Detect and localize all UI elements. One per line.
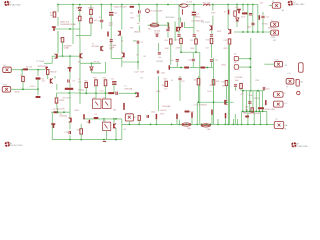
svg-text:100R: 100R: [190, 48, 195, 50]
svg-text:GND: GND: [156, 91, 161, 93]
svg-text:OUT: OUT: [275, 59, 280, 61]
svg-text:R2 1k0: R2 1k0: [26, 66, 32, 68]
svg-text:GND: GND: [271, 37, 276, 39]
svg-text:C15: C15: [235, 7, 238, 9]
svg-text:1u5: 1u5: [188, 60, 191, 62]
svg-text:SEL: SEL: [110, 49, 113, 51]
svg-text:LS+: LS+: [287, 73, 291, 75]
svg-text:100uF 63V: 100uF 63V: [56, 109, 66, 111]
svg-text:F3: F3: [53, 109, 55, 111]
svg-text:2k: 2k: [171, 80, 173, 82]
svg-text:T10: T10: [86, 122, 89, 124]
svg-text:100n/X2: 100n/X2: [160, 110, 167, 112]
svg-text:2SA1943: 2SA1943: [268, 27, 275, 30]
svg-text:C10: C10: [111, 78, 114, 80]
svg-text:D6: D6: [234, 62, 236, 64]
svg-text:3A: 3A: [282, 9, 285, 12]
svg-text:2N3055A: 2N3055A: [124, 88, 133, 91]
svg-text:2k2: 2k2: [206, 47, 209, 49]
svg-text:T4: T4: [121, 41, 123, 43]
svg-text:D5: D5: [234, 54, 236, 56]
svg-text:FRONT-END: FRONT-END: [10, 145, 23, 147]
svg-text:C11: C11: [215, 60, 218, 62]
svg-text:R13: R13: [206, 39, 209, 41]
svg-text:R0R22: R0R22: [254, 98, 260, 100]
svg-text:X1: X1: [272, 1, 274, 3]
svg-text:4k7: 4k7: [94, 20, 97, 22]
svg-text:C13 NFB: C13 NFB: [235, 77, 244, 79]
svg-text:R22: R22: [164, 79, 167, 81]
svg-text:4R7: 4R7: [273, 40, 276, 42]
svg-text:1k: 1k: [82, 90, 84, 92]
svg-text:LS-: LS-: [284, 103, 287, 105]
svg-text:QUAD: QUAD: [64, 47, 70, 50]
svg-text:T5: T5: [178, 19, 180, 21]
svg-text:2k0: 2k0: [162, 85, 165, 87]
svg-text:C9: C9: [141, 42, 143, 44]
svg-text:100n: 100n: [151, 111, 155, 113]
svg-text:C14: C14: [260, 3, 263, 5]
svg-text:220R: 220R: [60, 100, 65, 102]
svg-text:C5: C5: [137, 16, 139, 18]
svg-text:100n: 100n: [235, 80, 239, 82]
svg-text:1.5uF: 1.5uF: [134, 72, 140, 74]
svg-text:QUAD: QUAD: [154, 32, 160, 35]
svg-text:BF245: BF245: [195, 17, 201, 19]
svg-text:IN: IN: [4, 65, 7, 67]
svg-text:QUAD-PAD: QUAD-PAD: [9, 3, 21, 6]
svg-text:3A: 3A: [300, 81, 303, 84]
svg-text:R24: R24: [216, 81, 219, 83]
svg-text:X5R: X5R: [130, 18, 134, 20]
svg-text:OF TL072: OF TL072: [202, 22, 210, 24]
svg-text:2N3055A: 2N3055A: [59, 115, 67, 118]
svg-text:R6: R6: [144, 56, 146, 58]
svg-text:B1: B1: [137, 55, 139, 57]
svg-text:C7 220pF: C7 220pF: [36, 61, 45, 63]
svg-text:1u4F: 1u4F: [211, 12, 216, 14]
svg-text:B1: B1: [134, 117, 136, 119]
svg-text:QUAD-PAD: QUAD-PAD: [293, 3, 305, 6]
svg-text:2A: 2A: [124, 128, 127, 131]
svg-text:C17: C17: [266, 17, 269, 19]
svg-text:RL1: RL1: [148, 28, 151, 30]
svg-text:R7: R7: [60, 38, 62, 40]
svg-text:10u: 10u: [170, 60, 173, 62]
svg-text:C8: C8: [72, 81, 74, 83]
svg-text:T4A: T4A: [206, 128, 210, 131]
svg-text:R19: R19: [93, 78, 96, 80]
svg-text:C4 1u: C4 1u: [99, 91, 104, 93]
svg-text:R9 1k0: R9 1k0: [94, 61, 100, 63]
svg-text:R11: R11: [176, 39, 179, 41]
svg-text:GND: GND: [3, 84, 8, 86]
svg-text:R25 10R: R25 10R: [203, 2, 211, 4]
svg-text:1k5: 1k5: [210, 85, 213, 87]
svg-text:2A: 2A: [285, 64, 288, 67]
svg-text:BC556B: BC556B: [92, 46, 100, 48]
svg-text:C2: C2: [20, 75, 22, 77]
svg-text:0R22: 0R22: [222, 65, 227, 67]
svg-text:0R1: 0R1: [222, 86, 225, 88]
svg-text:C2 47n: C2 47n: [30, 86, 36, 88]
svg-text:100R: 100R: [165, 48, 170, 50]
svg-text:220R: 220R: [75, 110, 80, 112]
svg-text:100n: 100n: [247, 27, 251, 29]
svg-text:100n: 100n: [245, 107, 249, 109]
svg-text:22uH: 22uH: [207, 91, 212, 93]
svg-text:AGND: AGND: [15, 91, 21, 94]
svg-text:1N/QUAD: 1N/QUAD: [162, 105, 171, 108]
svg-text:10uF: 10uF: [241, 16, 246, 18]
svg-text:R31: R31: [244, 112, 247, 114]
svg-text:275V: 275V: [160, 114, 165, 116]
svg-text:47u: 47u: [78, 81, 81, 83]
svg-text:1N4148/QUAD: 1N4148/QUAD: [248, 112, 261, 115]
svg-text:QUAD 2SC5200: QUAD 2SC5200: [114, 6, 127, 9]
svg-text:C19: C19: [140, 77, 143, 79]
svg-text:C12: C12: [181, 81, 184, 83]
svg-text:T4A: T4A: [187, 127, 191, 130]
svg-text:22p: 22p: [241, 93, 244, 95]
svg-text:D2: D2: [99, 17, 101, 19]
svg-text:C16: C16: [266, 88, 269, 90]
svg-text:220R: 220R: [176, 47, 181, 49]
svg-text:1k0: 1k0: [158, 57, 161, 59]
svg-text:1N4148: 1N4148: [134, 31, 141, 33]
svg-text:4u7: 4u7: [42, 81, 45, 83]
svg-text:R23: R23: [194, 79, 197, 81]
svg-text:R21: R21: [113, 110, 116, 112]
svg-text:R14: R14: [224, 40, 227, 42]
svg-text:1k0: 1k0: [164, 88, 167, 90]
svg-text:1N4148: 1N4148: [50, 72, 57, 74]
svg-text:T9: T9: [224, 12, 226, 14]
svg-text:R29: R29: [256, 80, 259, 82]
svg-text:MKT: MKT: [109, 25, 114, 27]
svg-text:SCHUKO-CEE: SCHUKO-CEE: [263, 109, 276, 111]
svg-text:R8: R8: [78, 61, 80, 63]
svg-text:100n: 100n: [249, 95, 253, 97]
svg-text:2N5551B: 2N5551B: [38, 66, 47, 68]
svg-text:10k: 10k: [197, 31, 200, 33]
svg-text:IC2: IC2: [103, 121, 106, 123]
svg-text:V-: V-: [284, 93, 286, 95]
svg-text:R32: R32: [77, 130, 80, 132]
svg-text:R3 47k: R3 47k: [88, 8, 94, 10]
svg-text:R12: R12: [190, 40, 193, 42]
svg-text:F4: F4: [95, 114, 97, 116]
svg-text:1N5366B/QUAD: 1N5366B/QUAD: [60, 23, 76, 26]
svg-text:4R7: 4R7: [130, 28, 133, 30]
svg-text:4R7 1W: 4R7 1W: [152, 22, 159, 24]
svg-text:L2 22uH R0R22: L2 22uH R0R22: [194, 104, 208, 106]
svg-text:C3: C3: [98, 21, 100, 23]
svg-text:QUAD-PAD: QUAD-PAD: [296, 145, 308, 148]
svg-text:10R: 10R: [140, 72, 144, 74]
svg-text:0R22: 0R22: [224, 48, 228, 50]
svg-text:SR240SEL: SR240SEL: [165, 17, 174, 19]
svg-text:L1 2uH: L1 2uH: [186, 2, 193, 4]
svg-text:4u7: 4u7: [137, 23, 140, 25]
svg-text:1N4148: 1N4148: [156, 61, 163, 63]
svg-text:TIP35C: TIP35C: [262, 24, 269, 26]
svg-text:D1: D1: [76, 7, 78, 9]
svg-text:X2: X2: [275, 119, 277, 121]
svg-text:100R: 100R: [217, 31, 222, 33]
svg-text:R4: R4: [76, 18, 78, 20]
svg-text:R27: R27: [222, 81, 225, 83]
svg-text:F5: F5: [286, 87, 288, 89]
svg-text:C6: C6: [188, 6, 190, 8]
svg-text:100n: 100n: [161, 72, 165, 74]
svg-text:1u4: 1u4: [130, 13, 133, 15]
svg-text:1u4: 1u4: [196, 14, 199, 16]
svg-text:R20: R20: [103, 78, 106, 80]
svg-text:C23: C23: [65, 132, 68, 134]
svg-text:R10: R10: [165, 40, 168, 42]
svg-text:10u: 10u: [114, 12, 117, 14]
svg-text:6A: 6A: [285, 124, 288, 127]
